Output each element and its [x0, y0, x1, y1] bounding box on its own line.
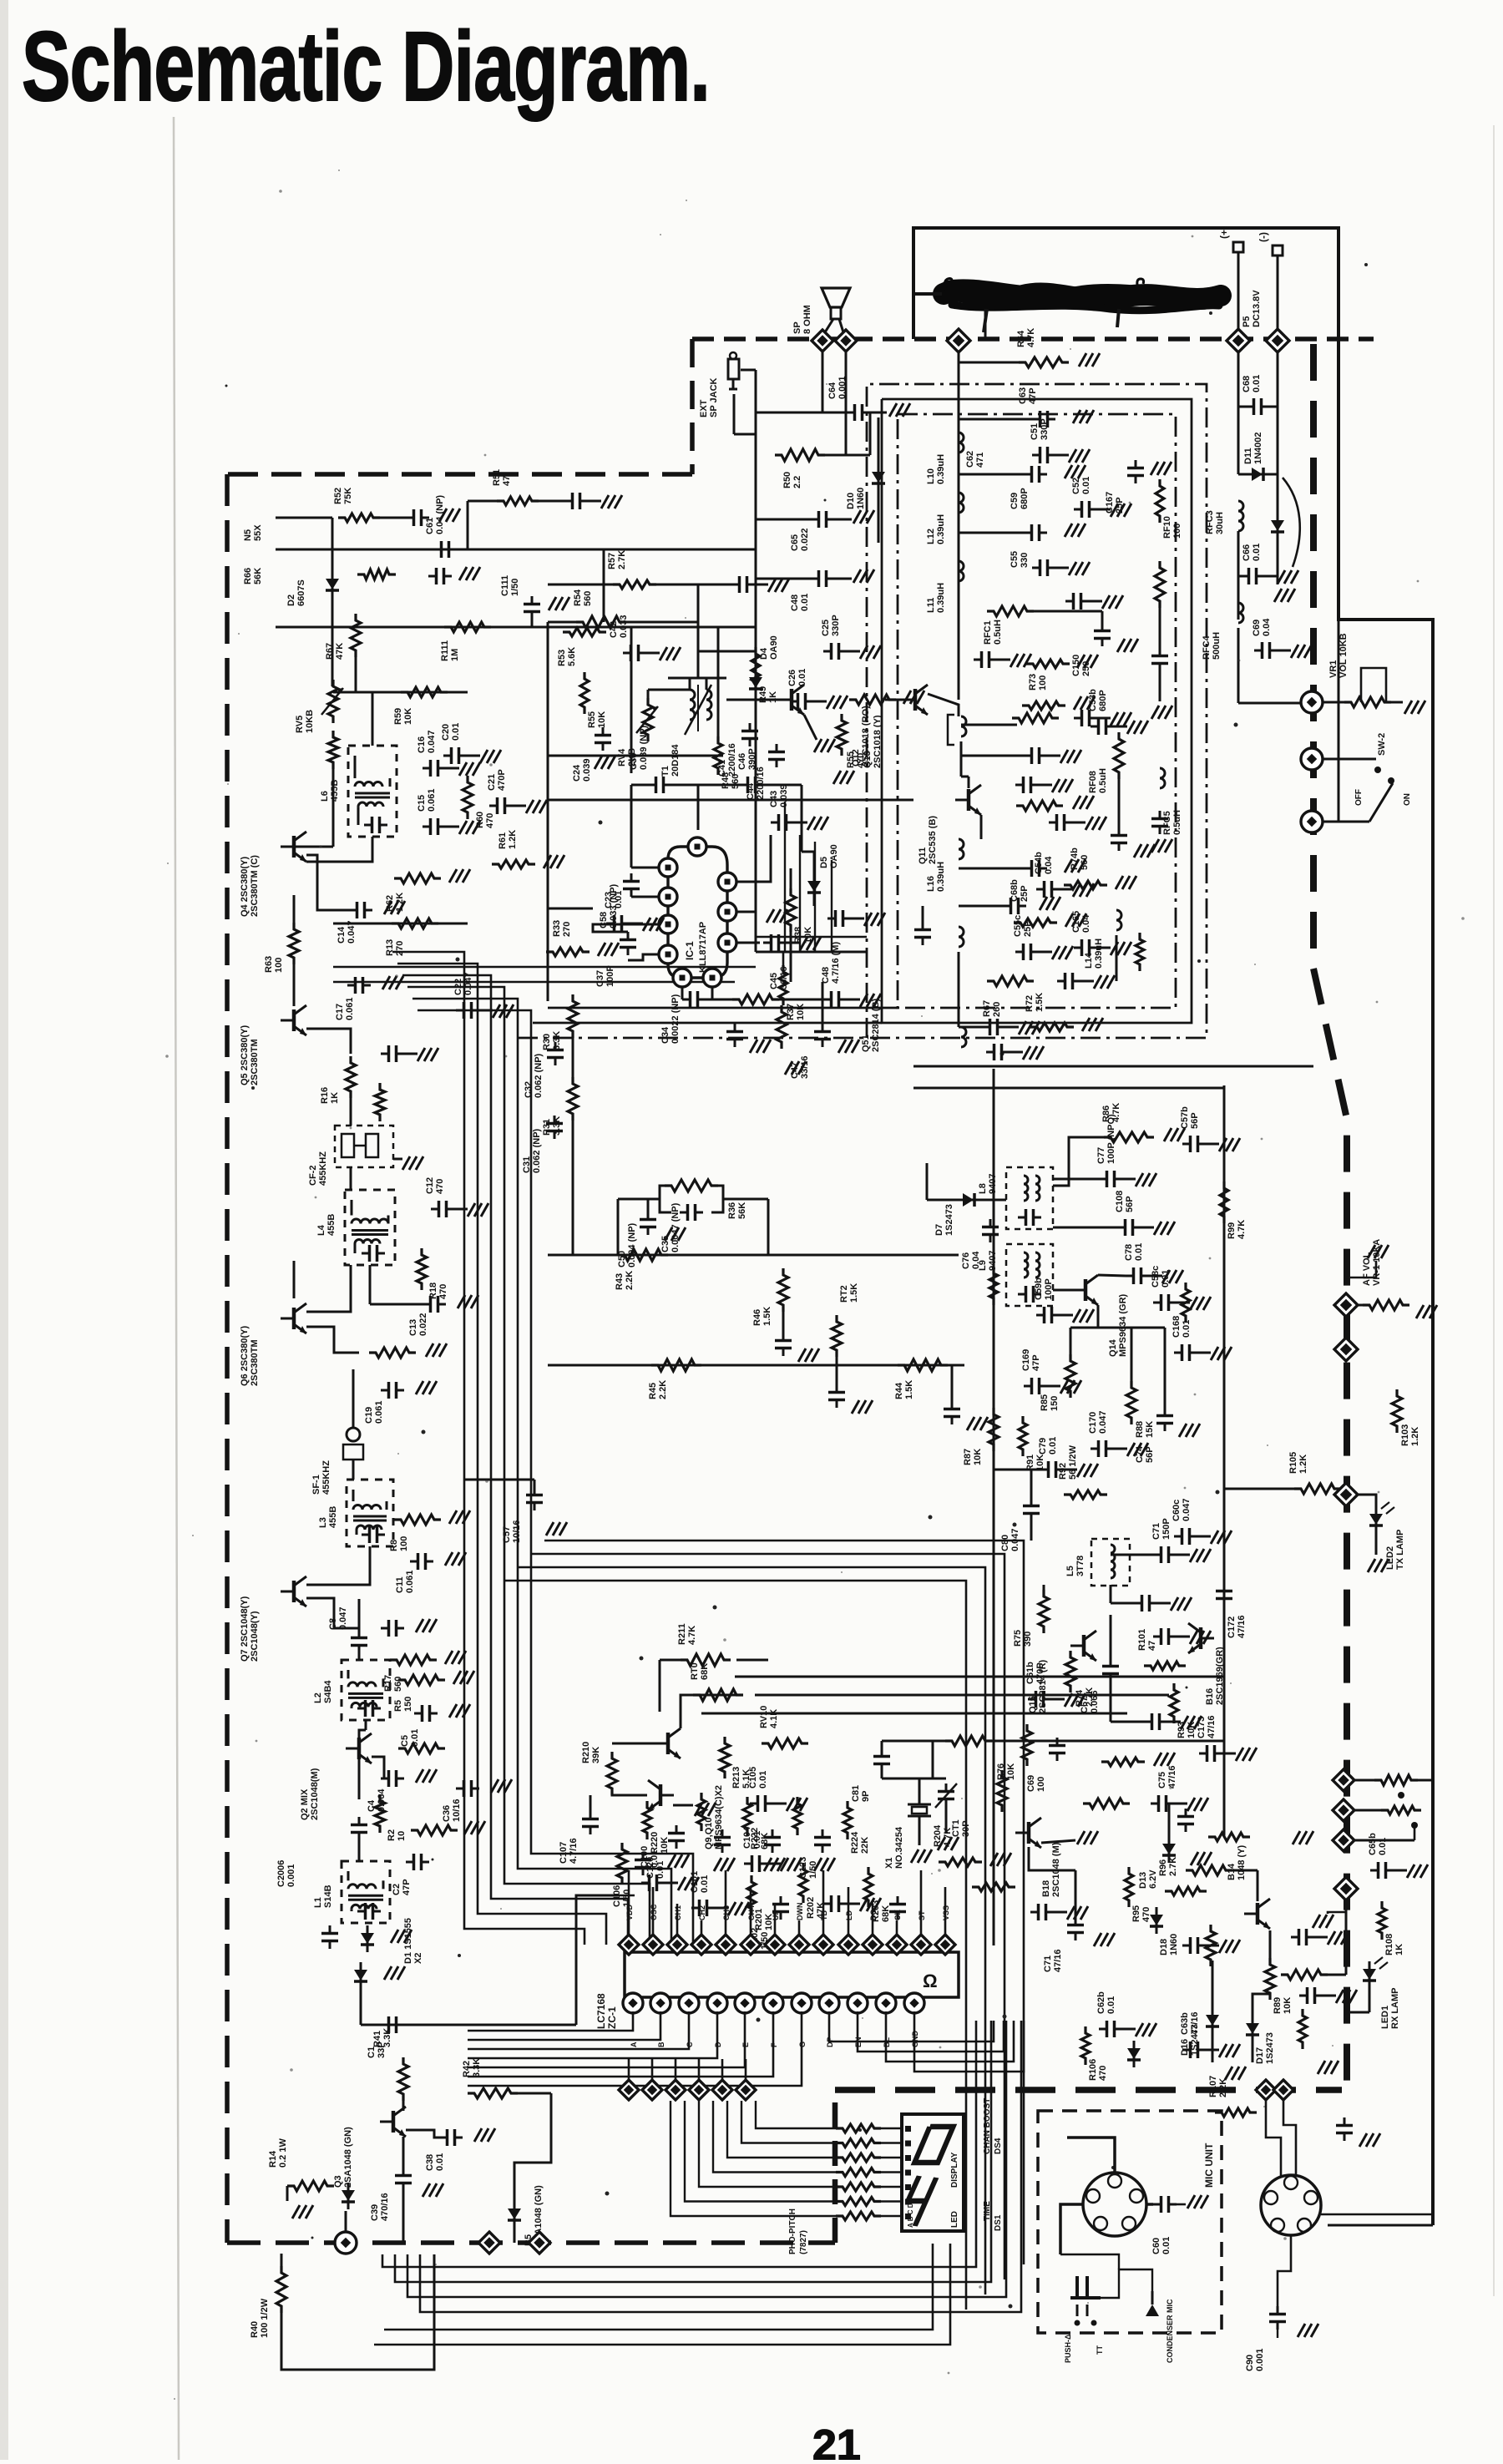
IC-2 bottom pin 19: [735, 1993, 755, 2013]
svg-text:R13: R13: [385, 939, 395, 956]
svg-text:C23: C23: [604, 892, 614, 908]
svg-text:9407: 9407: [988, 1174, 998, 1194]
wire J3 right to frame: [1321, 2214, 1433, 2216]
inductor L17 choke: [961, 1027, 966, 1047]
svg-text:C105: C105: [748, 1767, 758, 1789]
svg-text:C15: C15: [417, 795, 427, 812]
wire display bottom loop 2: [374, 2244, 950, 2345]
wire: [276, 517, 332, 519]
svg-text:1.5K: 1.5K: [1035, 993, 1045, 1012]
wire: [1345, 1900, 1348, 1962]
capacitor C61b 470P to ground: [1028, 1698, 1036, 1701]
wire: [1111, 1554, 1153, 1556]
svg-text:1N60: 1N60: [856, 488, 866, 509]
wire mic connector top: [1067, 2138, 1115, 2173]
LED LED2 TX LAMP: [1375, 1506, 1378, 1533]
svg-text:Q4 2SC380(Y): Q4 2SC380(Y): [240, 857, 250, 917]
svg-text:0.061: 0.061: [405, 1570, 415, 1593]
svg-text:C123: C123: [798, 1857, 808, 1879]
capacitor C52 0.01 to ground: [1074, 508, 1082, 511]
resistor R98 47: [1208, 1833, 1250, 1841]
svg-text:CH1: CH1: [674, 1905, 682, 1920]
svg-text:R204: R204: [933, 1824, 943, 1847]
capacitor C50 0.004: [647, 1212, 650, 1220]
capacitor C2 47P: [406, 1861, 414, 1864]
wire: [358, 1759, 361, 1799]
svg-text:C21: C21: [487, 774, 497, 791]
transformer L8 9407 dashed: [1006, 1167, 1053, 1229]
svg-text:1048 (Y): 1048 (Y): [1237, 1844, 1247, 1880]
ground after R64: [1079, 353, 1086, 367]
ground after C59: [1065, 465, 1072, 478]
wire: [802, 851, 814, 853]
wire down to frame: [1237, 576, 1240, 620]
resistor R62 1.2K: [394, 873, 441, 883]
svg-text:(+): (+): [1218, 226, 1230, 239]
ground after C4: [416, 1769, 423, 1783]
svg-text:C1: C1: [367, 2047, 377, 2058]
svg-text:CF-2: CF-2: [308, 1166, 318, 1186]
svg-text:C54b: C54b: [1034, 852, 1044, 874]
wire D4 up: [755, 651, 757, 670]
wire blob to frame left: [913, 292, 942, 296]
svg-text:47P: 47P: [1028, 387, 1038, 404]
capacitor C160 0.04: [1159, 648, 1161, 656]
capacitor C57 10/16: [534, 1487, 536, 1495]
wire Q5 emitter: [306, 1029, 351, 1054]
wire IC-1 top pin up: [697, 785, 700, 830]
IC-1 pin 2: [659, 888, 677, 906]
capacitor C61 0.04 series: [433, 549, 442, 551]
svg-text:0.001: 0.001: [1255, 2348, 1265, 2371]
inductor L12 0.39uH: [959, 493, 964, 513]
diode D14 1S2473: [347, 2183, 350, 2209]
svg-text:D13: D13: [1138, 1872, 1148, 1889]
resistor R67 47K: [351, 614, 361, 657]
resistor R51 display segment B: [836, 2139, 881, 2148]
svg-text:270: 270: [395, 941, 405, 956]
wire to D11: [1277, 407, 1279, 474]
svg-text:0.39uH: 0.39uH: [1094, 939, 1104, 969]
wire D2 to RV5: [331, 598, 334, 686]
ground after C155: [1040, 897, 1047, 910]
connector 18 AF VOL: [1334, 1338, 1358, 1361]
svg-text:C108: C108: [1115, 1191, 1125, 1212]
capacitor C63b 47/16 to ground: [1182, 2049, 1191, 2052]
capacitor C62b 0.01 to ground: [1099, 2028, 1107, 2031]
svg-text:47/16: 47/16: [1190, 2011, 1200, 2035]
ground after R8: [449, 1510, 457, 1524]
svg-text:0.061: 0.061: [427, 788, 437, 812]
capacitor C38 0.01: [439, 2137, 448, 2139]
svg-text:R40: R40: [250, 2321, 260, 2338]
capacitor C77 100P to ground: [1099, 1178, 1107, 1181]
svg-text:150: 150: [403, 1697, 413, 1712]
svg-text:R59: R59: [393, 708, 403, 725]
antenna transformer L1 S14B: [342, 1861, 390, 1923]
wire: [790, 925, 792, 982]
svg-text:0.5uH: 0.5uH: [1098, 768, 1108, 793]
mic connector J2 body: [1083, 2173, 1146, 2236]
capacitor C74 56P: [1164, 1408, 1166, 1416]
svg-text:R105: R105: [1288, 1452, 1298, 1474]
svg-text:47: 47: [1147, 1641, 1157, 1651]
svg-text:C68: C68: [1242, 376, 1252, 392]
svg-text:R111: R111: [440, 640, 450, 661]
svg-text:470: 470: [438, 1284, 448, 1299]
svg-text:R220: R220: [650, 1832, 660, 1854]
svg-text:2.7K: 2.7K: [1168, 1857, 1178, 1876]
svg-text:47K: 47K: [335, 643, 345, 660]
svg-text:RV10: RV10: [759, 1706, 769, 1728]
svg-text:560: 560: [1080, 855, 1090, 870]
svg-text:C39: C39: [370, 2204, 380, 2221]
ground after C17: [382, 976, 390, 989]
svg-text:2SC2814 (B): 2SC2814 (B): [871, 998, 881, 1052]
resistor R59 10K: [401, 687, 448, 697]
svg-text:C65: C65: [790, 534, 800, 551]
capacitor C169 47P to ground: [1024, 1385, 1032, 1388]
inductor L14 0.39uH: [1116, 910, 1121, 930]
filter element 1: [342, 1134, 354, 1157]
svg-text:R96: R96: [1158, 1859, 1168, 1876]
svg-text:R213: R213: [731, 1767, 741, 1789]
svg-text:0.04: 0.04: [971, 1251, 981, 1269]
capacitor C49b 0.01 to ground: [827, 918, 836, 920]
svg-text:680P: 680P: [1020, 488, 1030, 509]
ground C24: [595, 756, 602, 769]
speaker connector J3 body: [1261, 2175, 1321, 2235]
svg-text:C20: C20: [441, 724, 451, 741]
resistor R76 10K: [1022, 1724, 1032, 1766]
IC-2 top pin 3: [667, 1935, 687, 1955]
resistor R52 75K: [338, 514, 380, 522]
resistor R813 100: [1381, 1806, 1421, 1814]
ground after C65: [853, 510, 861, 524]
IC-2 top pin 4: [691, 1935, 711, 1955]
svg-text:RFC5: RFC5: [1162, 811, 1172, 835]
wire R42 to D15: [514, 2093, 551, 2188]
wire C107 up: [590, 1795, 592, 1811]
wire: [1358, 1304, 1368, 1307]
connector ANT on bus: [947, 329, 970, 352]
transistor Q4 2SC380: [292, 836, 296, 858]
svg-text:0.39uH: 0.39uH: [936, 454, 946, 484]
ground C121: [714, 1858, 721, 1871]
resistor RV10 4.1K: [762, 1738, 808, 1748]
resistor R107 2.2K: [1215, 2108, 1257, 2117]
svg-text:C63b: C63b: [1180, 2012, 1190, 2035]
coil L5 3T78 dashed: [1091, 1539, 1130, 1586]
connector 8 on bottom boundary: [335, 2232, 357, 2254]
wire: [358, 1599, 361, 1630]
svg-text:0.004 (NP): 0.004 (NP): [627, 1222, 637, 1267]
resistor R108 1K: [1378, 1901, 1386, 1940]
wire: [1116, 935, 1118, 981]
capacitor C69 470P: [428, 575, 437, 578]
svg-text:C61b: C61b: [1025, 1662, 1035, 1684]
svg-text:RV5: RV5: [295, 716, 305, 733]
wire: [1131, 1328, 1133, 1388]
wire CF-2 out: [350, 1167, 352, 1190]
wires display ladder left risers: [756, 2101, 802, 2128]
wire pin11 down: [681, 987, 684, 999]
IC-2 top pin 8: [789, 1935, 809, 1955]
ground below D12: [1274, 589, 1282, 602]
svg-text:C51: C51: [1030, 423, 1040, 440]
svg-text:0.066: 0.066: [1090, 1690, 1100, 1713]
svg-text:TX LAMP: TX LAMP: [1395, 1530, 1405, 1570]
wire J3 pins up: [1266, 2100, 1281, 2176]
speckle noise dots: [939, 2047, 942, 2049]
svg-text:10/16: 10/16: [452, 1799, 462, 1822]
svg-text:0.022: 0.022: [800, 528, 810, 551]
wire: [813, 900, 816, 906]
wire: [1369, 1988, 1371, 2012]
svg-text:1K: 1K: [768, 691, 778, 703]
svg-text:L6: L6: [320, 791, 330, 802]
wire Q11 emitter down: [980, 815, 983, 839]
wire: [959, 473, 1024, 476]
wire TX bottom rail: [994, 1740, 1224, 1743]
svg-text:R31: R31: [542, 1119, 552, 1136]
svg-text:SP JACK: SP JACK: [709, 377, 719, 417]
capacitor C1 33P: [381, 2024, 389, 2026]
wire jack bus down: [755, 455, 757, 952]
ground after D1b: [384, 1966, 392, 1980]
terminal (-) square: [1273, 245, 1283, 256]
seven-segment digit 4: [901, 2176, 937, 2226]
resistor RT0 68K: [693, 1689, 743, 1701]
wire: [1053, 1178, 1099, 1181]
capacitor C155 0.01: [1003, 905, 1011, 908]
wire: [1030, 1470, 1033, 1498]
wire D5 up: [813, 852, 816, 873]
capacitor C31 0.062: [554, 1116, 556, 1124]
capacitor C43 0.039 to ground: [771, 822, 779, 824]
svg-text:C168: C168: [1172, 1316, 1182, 1338]
capacitor C81 9P: [881, 1748, 883, 1757]
ground after R70: [1404, 701, 1412, 714]
wire: [572, 1031, 574, 1084]
svg-text:R53: R53: [557, 650, 567, 666]
svg-text:C34: C34: [660, 1026, 671, 1044]
svg-text:2SC535 (B): 2SC535 (B): [928, 816, 938, 864]
wire: [756, 519, 811, 521]
svg-text:0.061: 0.061: [374, 1400, 384, 1424]
resistor R60 470: [463, 776, 473, 819]
wire antenna feed down: [958, 351, 960, 700]
svg-text:R50: R50: [782, 472, 792, 488]
svg-text:C52: C52: [1071, 478, 1081, 494]
svg-text:30uH: 30uH: [1215, 512, 1225, 534]
resistor R97 150: [1298, 2009, 1307, 2049]
IC-1 pin 10: [688, 837, 706, 856]
wire: [959, 868, 1024, 870]
svg-text:Q6 2SC380(Y): Q6 2SC380(Y): [240, 1326, 250, 1386]
ground after R104: [1416, 1305, 1424, 1318]
svg-text:6607S: 6607S: [296, 579, 306, 606]
wire to SF-1: [352, 1369, 355, 1428]
capacitor C55c 25P to ground: [1015, 951, 1024, 954]
svg-text:0.39uH: 0.39uH: [936, 583, 946, 613]
svg-text:(-): (-): [1258, 232, 1269, 242]
resistor R812 220: [1374, 1775, 1418, 1785]
wire: [1238, 702, 1301, 705]
wire: [1053, 1137, 1111, 1186]
svg-text:C32: C32: [524, 1081, 534, 1098]
svg-text:DISPLAY: DISPLAY: [950, 2152, 959, 2188]
resistor R55b 10K: [580, 672, 589, 714]
wire RFC3 down: [1237, 531, 1240, 576]
svg-text:DC13.8V: DC13.8V: [1252, 290, 1262, 327]
wire: [1029, 610, 1102, 613]
capacitor C69c 0.04 to ground: [1254, 650, 1263, 652]
svg-text:Q7 2SC1048(Y): Q7 2SC1048(Y): [240, 1596, 250, 1662]
wire D7 to L8: [982, 1199, 1006, 1202]
wire mic unit inner: [1060, 2254, 1119, 2269]
wire: [822, 982, 824, 1024]
capacitor C10 0.01: [381, 1627, 389, 1630]
wire bus bundle middle-left: [392, 952, 584, 1945]
wire to right: [987, 1740, 1111, 1743]
ground C122: [764, 1858, 772, 1871]
svg-text:0.04: 0.04: [1262, 618, 1272, 636]
svg-text:R16: R16: [320, 1087, 330, 1104]
ground after C60: [1187, 2195, 1195, 2208]
capacitor C100 0.01 to ground: [641, 1882, 650, 1885]
wire pin3 left: [548, 908, 593, 910]
IC-1 pin 9: [718, 873, 736, 891]
wire J3 pin up 2: [1283, 2100, 1296, 2174]
connector 3 SW: [1301, 811, 1323, 832]
ground after C150: [1117, 639, 1125, 652]
ground after C70: [439, 508, 447, 522]
svg-text:R95: R95: [1131, 1905, 1141, 1922]
svg-text:150: 150: [1050, 1396, 1060, 1411]
wire: [1355, 1809, 1386, 1812]
connector bus pin 3: [665, 2080, 686, 2100]
svg-text:0.061: 0.061: [345, 997, 355, 1020]
ground after C50: [665, 1227, 672, 1241]
svg-text:0.01: 0.01: [1134, 1243, 1144, 1261]
IC-2 bottom pin 22: [819, 1993, 839, 2013]
svg-text:L11: L11: [926, 598, 936, 613]
wire Q4 emitter: [306, 855, 349, 910]
PCB boundary dashed bottom bus: [835, 2087, 1342, 2093]
ground after C10: [416, 1619, 423, 1632]
wire pin12 down: [711, 987, 714, 999]
resistor R810 22: [1281, 1970, 1328, 1980]
wire: [1098, 1275, 1126, 1276]
PCB boundary dashed bottom-left: [227, 2240, 835, 2245]
wire SW lower: [1323, 821, 1369, 823]
capacitor C108 56P to ground: [1117, 1227, 1126, 1229]
svg-text:C63: C63: [1018, 387, 1028, 404]
svg-text:0.047: 0.047: [1098, 1410, 1108, 1434]
receiver outline inner bottom tail: [548, 1007, 898, 1009]
ground after R86: [1164, 1128, 1172, 1141]
ground after C71b: [1094, 1933, 1101, 1946]
resistor R213 5.1K: [720, 1737, 730, 1778]
svg-text:DS4: DS4: [994, 2138, 1003, 2154]
svg-text:R88: R88: [1135, 1421, 1145, 1438]
ground left of D14: [292, 2205, 300, 2219]
capacitor C58 0.033: [630, 873, 633, 882]
svg-text:RFC3: RFC3: [1205, 510, 1215, 534]
capacitor C68 0.01: [1246, 406, 1254, 408]
scan artifact vertical line right: [1493, 125, 1495, 2296]
transistor Q19 2SD1048: [1256, 1903, 1260, 1925]
resistor R65 560: [1012, 713, 1059, 723]
wire: [372, 692, 374, 718]
svg-text:56P: 56P: [1125, 1196, 1135, 1212]
svg-text:0.01: 0.01: [797, 669, 807, 686]
resistor R49 1K: [751, 647, 760, 689]
wire: [618, 1198, 660, 1201]
wire: [1110, 1615, 1112, 1658]
transistor Q14 MPS9634: [1084, 1279, 1088, 1301]
svg-text:390P: 390P: [747, 748, 757, 770]
wire: [331, 518, 334, 549]
resistor R66b 100: [1016, 801, 1063, 811]
connector 11 on bottom bus: [1256, 2080, 1276, 2100]
svg-text:5.6K: 5.6K: [567, 647, 577, 666]
wire: [1283, 1974, 1286, 1976]
svg-text:0.047: 0.047: [427, 730, 437, 753]
capacitor C48 0.01: [811, 578, 819, 580]
resistor R46 1.5K: [778, 1268, 788, 1312]
wire: [548, 621, 583, 624]
wire Q13 base: [885, 699, 902, 701]
mic connector pin 2: [1086, 2189, 1100, 2203]
wire Q18 emitter: [1041, 1840, 1075, 1843]
J3 pin 1: [1284, 2176, 1298, 2189]
resistor R39 56: [732, 994, 779, 1004]
capacitor C161 330P to ground: [1032, 567, 1040, 569]
svg-text:L1: L1: [313, 1897, 323, 1908]
ground C123: [814, 1858, 822, 1871]
diode D4 OA90: [755, 670, 757, 696]
svg-text:ZC-1: ZC-1: [606, 2006, 618, 2029]
resistor R67b 260: [987, 976, 1034, 986]
svg-text:100: 100: [399, 1536, 409, 1551]
mic connector pin 4: [1094, 2217, 1107, 2230]
svg-text:0.39uH: 0.39uH: [936, 862, 946, 892]
wire switch feed: [1338, 620, 1340, 822]
wire to C64: [756, 412, 847, 414]
capacitor C14 0.047: [349, 909, 357, 912]
svg-text:10K: 10K: [973, 1449, 983, 1465]
capacitor C26 0.01 to ground: [790, 701, 798, 703]
capacitor C58b 330P: [1024, 532, 1032, 534]
wire: [767, 1199, 770, 1255]
ground C64b: [1359, 2133, 1367, 2147]
filter element 2: [366, 1134, 378, 1157]
svg-text:D1 1S1555: D1 1S1555: [403, 1918, 413, 1964]
svg-text:560: 560: [393, 1677, 403, 1692]
wire: [698, 650, 756, 653]
svg-text:1N60: 1N60: [1169, 1934, 1179, 1956]
svg-text:3.3K: 3.3K: [382, 2028, 392, 2047]
wire: [1101, 611, 1104, 623]
svg-text:4.7K: 4.7K: [943, 1828, 953, 1847]
svg-text:68K: 68K: [700, 1663, 710, 1680]
svg-text:0.2 1W: 0.2 1W: [278, 2138, 288, 2168]
svg-text:CH3: CH3: [722, 1905, 731, 1920]
capacitor C167 25P: [1135, 460, 1137, 468]
svg-text:47/16: 47/16: [1167, 1765, 1177, 1789]
